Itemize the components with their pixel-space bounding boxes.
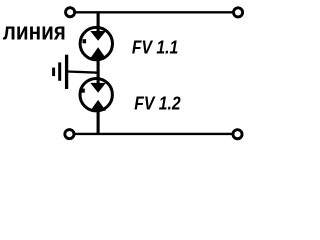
svg-text:FV 1.1: FV 1.1 [132, 37, 178, 57]
svg-text:FV 1.2: FV 1.2 [134, 94, 180, 114]
svg-text:линия: линия [3, 18, 66, 45]
